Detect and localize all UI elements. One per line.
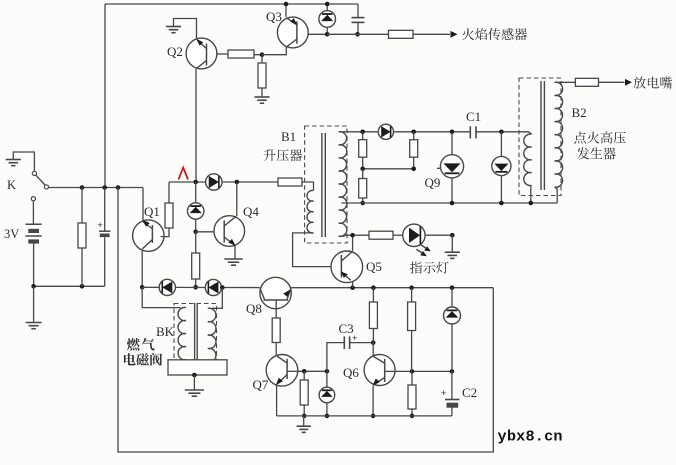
junction D1 bottom on sensor wire [325,32,330,37]
wire BK left lead [142,287,180,307]
resistor R6b (vertical) [413,132,415,140]
junction R8 top row [371,285,376,290]
wire D2 to resistor [222,181,278,183]
transistor Q5 [331,251,363,283]
switch K contact c [31,197,35,201]
wire R11 to arrow [599,81,625,83]
junction R12 top [302,369,307,374]
switch K contact b [44,185,48,189]
junction BK right lead [220,285,225,290]
wire Q7 base row [297,370,327,372]
junction D8 top row [450,285,455,290]
wire BK right lead [212,288,222,309]
svg-text:C1: C1 [466,109,481,124]
svg-text:B1: B1 [281,129,296,144]
junction node A [193,180,198,185]
transistor Q3 [277,17,308,48]
arrow to flame sensor [451,31,458,38]
junction R13 bottom [410,414,415,419]
resistor R2c (vertical below node) [261,55,263,63]
wire to flame sensor resistor [327,33,389,35]
svg-text:Q6: Q6 [343,365,359,380]
B1 core [321,133,323,237]
transformer B2 dashed box [519,78,561,196]
arrow to discharge nozzle [625,79,632,86]
resistor R9 (vertical) [411,288,413,302]
thyristor Q9 [437,167,443,169]
resistor R11 (discharge) [575,78,598,86]
label 火焰传感器 (flame sensor) [462,28,474,40]
junction C4 bottom [355,32,360,37]
wire Q6 emitter down [372,386,374,416]
label 发生器 (generator) [577,147,589,159]
transistor Q4 [214,216,245,247]
resistor R2b (Q2 base, horizontal) [228,50,254,58]
wire contact to battery [32,201,34,224]
label 点火高压 (ignition HV) [574,132,586,144]
resistor R8 (vertical) [372,288,374,302]
junction switch wire R1 [80,185,85,190]
wire resistor to node [254,54,262,56]
transistor Q2 [186,38,217,69]
label 指示灯 (indicator lamp) [410,262,422,274]
wire node A row [169,181,206,183]
junction R6b top [411,130,416,135]
junction R6a top [360,130,365,135]
wire Q1 emitter down [141,250,143,288]
diode D8 (pointing up) [451,288,453,308]
wire Q5 collector up [352,235,354,251]
wire node up to Q3 emitter [262,47,286,55]
junction switch wire C5 [102,185,107,190]
BK secondary coil [208,308,216,362]
junction join left [360,167,365,172]
wire B2 secondary top out [555,81,576,83]
ground G8 (below R2c) [254,96,269,98]
wire D4 to D5 [175,286,205,288]
wire D5 to Q8 [222,287,260,289]
junction R12 bottom [302,414,307,419]
junction C3 branch [325,369,330,374]
resistor R7 (Q8 emitter) [272,318,280,343]
wire B2 primary bottom [530,185,532,203]
resistor R1 (vertical) [81,188,83,224]
junction R6c bottom [360,201,365,206]
transistor Q8 [260,277,291,308]
transistor Q7 [266,355,298,387]
LED D9 (indicator) [403,224,425,246]
wire Q6 collector [372,343,374,356]
svg-text:Q1: Q1 [144,204,160,219]
wire switch to circuit (node row) [48,187,143,189]
junction Q6 collector node [371,340,376,345]
svg-text:3V: 3V [4,227,19,241]
ground G2 (switch) [13,152,34,171]
wire Q8 row to frame [291,287,493,289]
wire R6a-R6b join [363,168,414,170]
label 电磁阀 (solenoid valve) [124,353,136,365]
B1 secondary coil [339,132,347,237]
ground G7 (bottom) [303,416,305,426]
capacitor C3 [327,343,344,372]
junction D7 bottom [499,201,504,206]
junction LED gnd [450,233,455,238]
svg-text:Q3: Q3 [266,9,282,24]
diode D5 (pointing left) [205,279,221,295]
wire Q5 emitter down [352,282,354,288]
resistor R-sensor (horizontal) [389,30,414,38]
resistor R10 (to LED) [369,231,393,239]
transformer BK dashed box [174,304,217,368]
transformer B1 dashed box [305,126,347,243]
ground G4 (Q4) [224,258,242,260]
diode D2 (node A, pointing right) [206,174,222,190]
wire Q7 emitter down [276,386,278,416]
wire battery to bottom rail [33,244,35,287]
svg-text:ybx8.cn: ybx8.cn [498,428,563,446]
wire Q2 emitter down to node A [195,69,197,182]
resistor R13 (vertical) [411,371,413,385]
svg-text:Q4: Q4 [243,204,259,219]
junction Q5 collector row [350,233,355,238]
wire outer frame (left/bottom/right) [118,188,493,453]
wire Q6 base row [395,370,452,372]
capacitor C1 [469,126,471,138]
wire to Q4 base [196,231,215,233]
junction R9 top row [409,285,414,290]
resistor R4 (vertical, node A to Q1) [168,182,170,203]
wire B1 secondary bottom row [339,235,369,236]
diode D3 (vertical, pointing up) [195,182,197,203]
transistor Q1 [133,220,164,251]
wire R7 to Q7 [275,343,277,355]
resistor R6a (vertical) [362,132,364,140]
ground G1 (above Q2) [174,19,197,39]
capacitor C2 (electrolytic) [451,371,453,399]
junction D10 bottom [325,414,330,419]
junction Q1 emitter row [140,285,145,290]
BK primary coil [178,307,186,359]
B2 secondary coil [555,82,563,187]
ground G6 (LED) [451,235,453,252]
resistor R6c (vertical) [362,169,364,179]
capacitor C5 (electrolytic) [104,188,106,231]
junction Q9 bottom [450,201,455,206]
svg-text:B2: B2 [572,105,587,120]
junction top rail at Q3 [284,2,289,7]
wire resistor to arrow [413,33,450,35]
BK base plinth [168,360,227,375]
junction switch wire left frame [116,185,121,190]
wire B1 secondary top out [339,131,378,133]
label 放电嘴 (discharge nozzle) [634,77,646,89]
wire Q3 collector to rail [285,4,287,17]
junction Q9 top [450,130,455,135]
junction C2 top node [450,369,455,374]
svg-text:BK: BK [156,324,175,339]
junction B2 primary bottom [529,201,534,206]
svg-text:Q5: Q5 [366,259,382,274]
wire B1 primary bottom to Q5 base [293,233,331,267]
B2 core [540,81,542,190]
wire mid rail (B1 tap to B2) [342,202,558,204]
junction Q4 base node [193,230,198,235]
svg-text:Q8: Q8 [246,301,262,316]
B1 primary coil [307,190,313,233]
transistor Q6 [364,355,395,386]
svg-text:C2: C2 [462,385,477,400]
junction R9 bottom node [410,369,415,374]
svg-text:Q9: Q9 [425,175,441,190]
junction join right [411,167,416,172]
resistor R12 (vertical) [303,371,305,380]
switch K contact a [32,171,36,175]
capacitor C4 (top right) [357,4,359,17]
resistor R5 (vertical below D3) [195,232,197,253]
wire bottom inner rail [277,415,452,417]
wire Q8 emitter to R7 [275,300,277,318]
junction Q6 emitter rail [371,414,376,419]
battery 3V [26,223,42,225]
wire R10 to LED [393,234,403,236]
svg-text:+: + [98,220,103,230]
wire Q1 row to D4 [142,286,159,288]
BK core [194,303,196,366]
wire Q4 collector up [236,182,238,216]
wire C1 to B2 [476,132,532,134]
junction plinth bottom [192,373,197,378]
wire B2 secondary bottom [555,187,558,203]
diode D6 (pointing right) [378,124,393,139]
wire Q4 emitter to ground [234,246,236,259]
svg-text:K: K [7,178,16,192]
wire LED to ground [425,234,452,236]
junction Q4 collector [235,180,240,185]
label 升压器 (booster) [264,149,276,161]
junction D7 top [499,130,504,135]
junction top rail at D1 [325,2,330,7]
wire left drop from top rail [104,4,106,188]
ground G5 (BK) [193,375,195,390]
wire R3 to B1 primary [302,182,314,191]
wire switch row to Q1 top [142,188,144,222]
resistor R3 (horizontal to B1) [278,178,302,186]
ground G3 (battery) [33,286,35,322]
label 燃气 (gas) [127,338,140,351]
junction Q5 emitter row [350,285,355,290]
junction battery rail [31,284,36,289]
svg-text:Q2: Q2 [167,44,183,59]
svg-text:+: + [441,388,446,398]
wire top supply rail [105,3,358,5]
switch K lever [36,175,45,185]
diode D1 (top, pointing up) [326,4,328,11]
wire D6 to C1 [394,131,471,133]
junction R5 bottom [193,285,198,290]
node junction below Q3 [260,52,265,57]
diode D10 (pointing up) [326,371,328,387]
node A marker [179,168,189,180]
svg-text:Q7: Q7 [253,377,269,392]
B2 primary coil [524,134,532,185]
diode D7 (pointing down) [500,132,502,157]
diode D4 (pointing left) [159,279,175,295]
svg-text:C3: C3 [339,321,354,336]
wire bottom left rail [34,285,105,287]
junction R1 bottom rail [80,284,85,289]
